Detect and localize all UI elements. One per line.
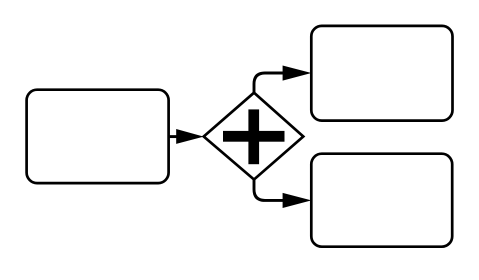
task box top right	[311, 26, 452, 121]
wire: sequence flow from gateway to bottom task	[254, 180, 284, 201]
gateway diamond	[204, 93, 304, 180]
arrowhead into top task	[283, 66, 312, 81]
wire: sequence flow from gateway to top task	[254, 73, 284, 93]
task box left	[27, 90, 169, 183]
task box bottom right	[311, 154, 452, 247]
wire: sequence flow from left task to gateway	[169, 135, 178, 138]
arrowhead into bottom task	[283, 193, 312, 208]
arrowhead into gateway	[176, 129, 204, 144]
plus marker horizontal bar	[223, 131, 285, 142]
plus marker vertical bar	[248, 109, 259, 164]
